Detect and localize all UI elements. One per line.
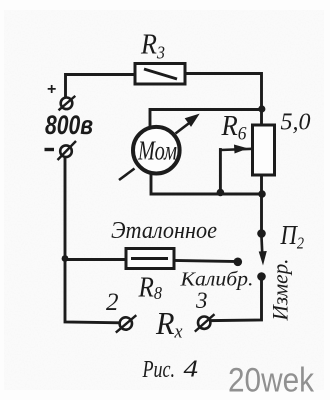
svg-text:800в: 800в xyxy=(45,110,93,140)
switch П2 xyxy=(257,229,267,281)
wire left rail to R8 left xyxy=(65,258,126,261)
terminal 3 xyxy=(195,314,215,331)
node B junction dots xyxy=(217,189,225,197)
wire R6 wiper vertical to bottom wire xyxy=(219,150,222,195)
node A junction dot xyxy=(258,105,265,112)
wire R3 right to top-right corner down to node A xyxy=(185,74,262,110)
Калибр contact dot xyxy=(234,258,243,267)
wire from + terminal to R3 left xyxy=(66,75,136,98)
op meter Мом (megohmmeter) xyxy=(133,127,180,174)
node on left rail for R8 xyxy=(62,255,69,262)
R6 wiper arrow xyxy=(220,145,252,153)
terminal - xyxy=(58,141,77,160)
wire meter bottom stub and bottom horizontal to node B xyxy=(151,172,262,194)
resistor R8 xyxy=(126,249,174,269)
terminal + xyxy=(59,96,76,110)
svg-text:4: 4 xyxy=(184,356,199,382)
svg-text:Мом: Мом xyxy=(137,136,177,166)
svg-text:5,0: 5,0 xyxy=(281,110,311,136)
svg-text:20wek: 20wek xyxy=(228,361,315,399)
svg-text:Рис.: Рис. xyxy=(142,357,175,383)
label - xyxy=(45,148,55,151)
svg-text:Эталонное: Эталонное xyxy=(111,218,217,244)
wire R8 right to Калибр contact xyxy=(174,261,238,262)
svg-text:3: 3 xyxy=(195,288,208,313)
wire meter top stub and top horizontal to node A xyxy=(150,110,262,129)
wire R6 bottom through node B to switch upper contact xyxy=(260,175,263,234)
svg-text:+: + xyxy=(47,81,56,98)
terminal 2 xyxy=(116,315,137,332)
wire left rail from - terminal to bottom-left corner and terminal 2 xyxy=(65,158,119,323)
resistor R3 xyxy=(135,64,185,85)
meter arrow xyxy=(119,115,199,181)
wire main vertical node A to R6 top xyxy=(260,109,263,125)
rheostat R6 xyxy=(253,125,275,175)
svg-text:Калибр.: Калибр. xyxy=(179,269,253,291)
wire switch lower contact down to bottom-right corner and terminal 3 xyxy=(211,277,262,321)
svg-text:Измер.: Измер. xyxy=(268,259,293,322)
svg-text:2: 2 xyxy=(106,289,119,316)
